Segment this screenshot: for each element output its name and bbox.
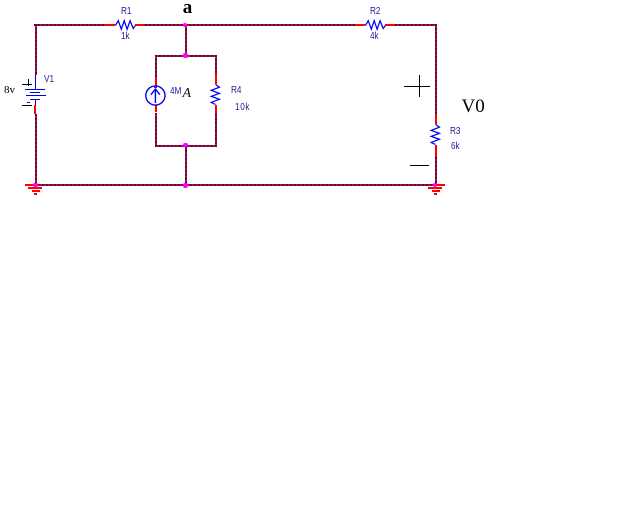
node a label xyxy=(183,0,193,17)
junction ground left xyxy=(33,183,37,187)
ground GND right xyxy=(425,184,445,186)
junction box top xyxy=(183,53,187,57)
resistor R3 leads xyxy=(435,114,437,124)
resistor R3 label xyxy=(450,127,460,137)
wire: box top side xyxy=(155,55,217,57)
V1 plate long top xyxy=(25,89,45,90)
resistor R2 label xyxy=(370,7,380,17)
resistor R1 label xyxy=(121,7,131,17)
wire: box right upper (to R4) xyxy=(215,55,217,75)
minus probe symbol xyxy=(410,165,429,166)
resistor R1 leads xyxy=(105,24,116,26)
V1 plate short xyxy=(30,92,40,93)
V1 symbol minus tick (blue) xyxy=(27,102,30,103)
wire top: node V1+ to R1 xyxy=(34,24,104,26)
junction bottom rail middle xyxy=(183,183,187,187)
wire top: R1 to R2 (through node a) xyxy=(145,24,355,26)
current source I1 leads xyxy=(155,78,157,86)
junction box bottom xyxy=(183,143,187,147)
wire bottom rail xyxy=(34,184,436,186)
plus probe symbol xyxy=(404,86,430,87)
voltage source V1 battery xyxy=(35,75,37,89)
junction node a xyxy=(183,23,187,27)
V1 minus sign xyxy=(22,105,32,107)
wire: box right lower (from R4) xyxy=(215,114,217,146)
wire left vertical: top corner to V1 xyxy=(35,24,37,74)
wire: node a down to box top xyxy=(185,25,187,56)
V1 plus sign xyxy=(22,84,32,85)
V1 bottom red pin xyxy=(34,105,36,114)
wire left vertical: V1 to ground xyxy=(35,114,37,186)
resistor R4 value 10k xyxy=(235,103,250,113)
wire right vertical: R3 to ground xyxy=(435,157,437,187)
resistor R1 value 1k xyxy=(121,32,130,42)
wire: box bottom side xyxy=(155,145,217,147)
V1 label xyxy=(44,75,54,85)
wire right vertical: top corner to R3 xyxy=(435,24,437,114)
junction ground right xyxy=(433,183,437,187)
resistor R2 leads xyxy=(355,24,366,26)
current source value 4MA xyxy=(170,87,181,97)
V1 plate long xyxy=(26,95,46,97)
V0 label xyxy=(462,97,485,116)
resistor R4 leads xyxy=(215,74,217,84)
V1 plate short bottom xyxy=(30,99,40,100)
wire: box bottom to bottom rail xyxy=(185,146,187,187)
resistor R3 value 6k xyxy=(451,142,460,152)
wire: box left lower (from current source) xyxy=(155,113,157,147)
V1 bottom blue lead xyxy=(35,100,37,105)
V1 value 8v xyxy=(4,85,15,96)
ground GND left xyxy=(25,184,45,186)
wire top: R2 to right corner xyxy=(395,24,437,26)
resistor R4 label xyxy=(231,86,241,96)
wire: box left upper (to current source) xyxy=(155,55,157,78)
resistor R2 value 4k xyxy=(370,32,379,42)
